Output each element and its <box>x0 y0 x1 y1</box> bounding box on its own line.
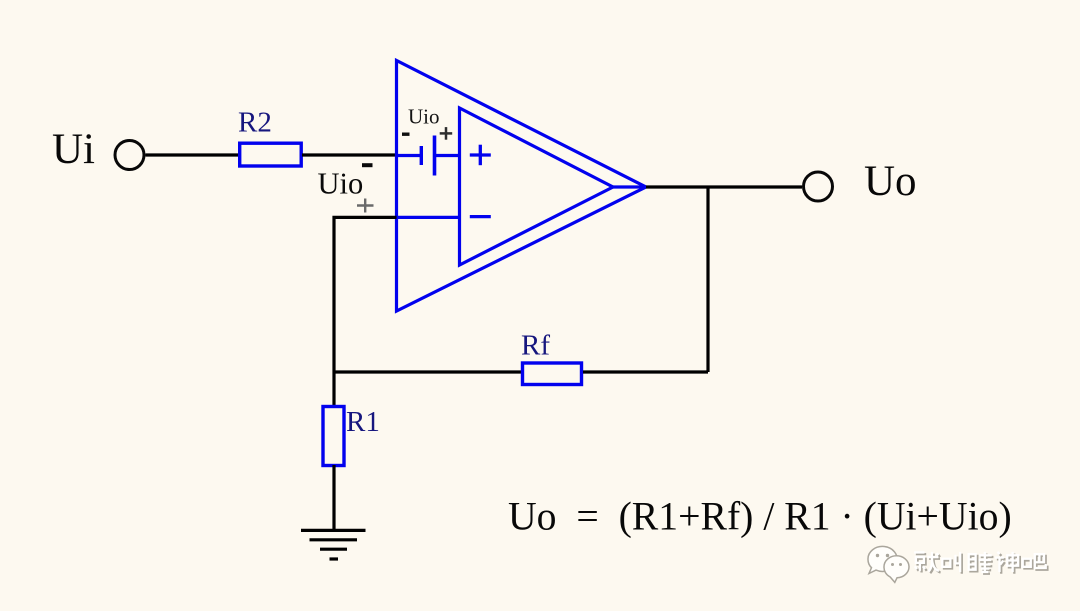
minus sign at inverting input <box>362 163 373 167</box>
wire <box>334 217 397 372</box>
wire <box>646 185 802 188</box>
wire <box>302 153 396 156</box>
label Uio (battery) <box>408 105 440 129</box>
label Ui <box>52 126 95 173</box>
battery Uio positive plate <box>433 136 437 176</box>
op-amp inner triangle <box>460 108 614 265</box>
svg-text:Uo: Uo <box>864 158 917 205</box>
battery plus sign <box>440 127 453 140</box>
wire <box>146 153 241 156</box>
label R2 <box>238 107 272 139</box>
resistor R1 <box>323 407 344 466</box>
wire <box>397 216 460 219</box>
svg-text:Rf: Rf <box>521 330 550 362</box>
resistor R2 <box>240 143 302 166</box>
wire <box>706 187 709 372</box>
battery Uio negative plate <box>420 146 423 165</box>
resistor Rf <box>523 363 582 385</box>
op-amp noninverting + symbol <box>470 145 491 166</box>
svg-text:R2: R2 <box>238 107 272 139</box>
svg-text:R1: R1 <box>346 406 380 438</box>
label Uio (input offset) <box>318 167 364 201</box>
plus sign at noninverting input <box>357 199 374 213</box>
output terminal Uo <box>804 172 833 201</box>
label R1 <box>346 406 380 438</box>
wire <box>334 370 522 373</box>
svg-text:Uio: Uio <box>318 167 364 201</box>
svg-text:Uo = (R1+Rf) / R1 · (Ui+Uio): Uo = (R1+Rf) / R1 · (Ui+Uio) <box>508 495 1012 539</box>
battery minus sign <box>402 132 410 135</box>
svg-text:Uio: Uio <box>408 105 440 129</box>
wire <box>397 154 421 157</box>
op-amp inverting - symbol <box>470 215 491 218</box>
watermark icon <box>868 546 909 582</box>
label Rf <box>521 330 550 362</box>
input terminal Ui <box>115 141 144 170</box>
label Uo <box>864 158 917 205</box>
wire <box>332 372 335 406</box>
wire <box>436 154 460 157</box>
ground <box>301 530 366 559</box>
wire <box>332 465 335 530</box>
wire <box>613 185 646 188</box>
wire <box>583 370 708 373</box>
formula Uo = (R1+Rf) / R1 . (Ui+Uio) <box>508 495 1012 539</box>
op-amp U1 outer triangle <box>397 61 647 312</box>
svg-text:Ui: Ui <box>52 126 95 173</box>
